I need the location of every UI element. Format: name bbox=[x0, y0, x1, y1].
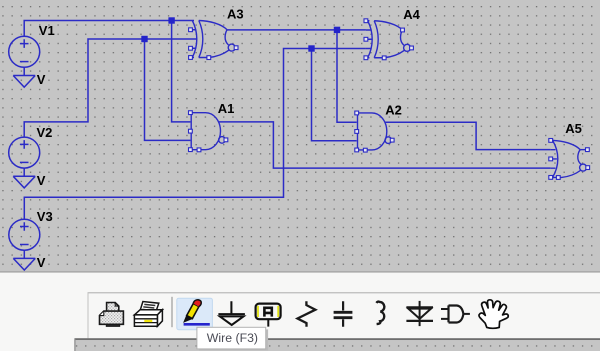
svg-text:V2: V2 bbox=[37, 125, 53, 140]
svg-text:A5: A5 bbox=[565, 121, 582, 136]
svg-text:A1: A1 bbox=[218, 101, 235, 116]
junction node J3 bbox=[308, 45, 314, 51]
svg-text:Wire (F3): Wire (F3) bbox=[207, 331, 258, 345]
wire V3 to node J3 and A4 pin4 bbox=[24, 49, 366, 220]
wire A2 output to A5 pin2 bbox=[385, 122, 551, 149]
junction node J1 bbox=[168, 17, 174, 23]
svg-text:A2: A2 bbox=[385, 103, 402, 118]
XOR gate A3 bbox=[189, 21, 238, 60]
wire J3 down to A2 pin4 bbox=[312, 49, 357, 141]
svg-text:V3: V3 bbox=[37, 209, 53, 224]
XOR gate A4 bbox=[364, 19, 413, 60]
TOOLBAR bbox=[88, 292, 600, 338]
toolbar resistor icon bbox=[298, 301, 316, 326]
toolbar net-label icon bbox=[256, 304, 281, 327]
svg-text:V: V bbox=[37, 173, 46, 188]
voltage source V1 bbox=[9, 36, 40, 67]
toolbar wire tool (pencil) selected bbox=[177, 298, 213, 330]
wire V1 to node J1 and A3 pin1 bbox=[24, 21, 190, 37]
toolbar inductor icon bbox=[376, 302, 384, 325]
toolbar print-preview icon bbox=[134, 302, 162, 327]
wire A1 output to A5 pin4 bbox=[218, 122, 551, 168]
AND gate A2 bbox=[355, 111, 394, 152]
white band below canvas bbox=[0, 273, 600, 351]
svg-text:V1: V1 bbox=[39, 23, 55, 38]
toolbar band left border bbox=[88, 292, 89, 338]
voltage source V2 bbox=[9, 137, 40, 168]
svg-text:V: V bbox=[37, 72, 46, 87]
AND gate A1 bbox=[189, 111, 228, 152]
toolbar band top border bbox=[88, 292, 600, 293]
wire A3 output to node J4 and A4 pin2 bbox=[227, 29, 366, 31]
junction node J2 bbox=[141, 36, 147, 42]
svg-text:A4: A4 bbox=[403, 7, 420, 22]
ground below V2 bbox=[13, 168, 35, 188]
wire J4 down to A2 pin2 bbox=[337, 30, 357, 122]
OR gate A5 bbox=[549, 139, 590, 180]
ground below V1 bbox=[13, 67, 35, 87]
tooltip Wire (F3) bbox=[197, 327, 268, 350]
toolbar print icon bbox=[100, 303, 124, 327]
wire J1 down to A1 pin2 bbox=[172, 21, 191, 122]
toolbar capacitor icon bbox=[334, 301, 353, 326]
svg-text:V: V bbox=[37, 255, 46, 270]
ground below V3 bbox=[13, 250, 35, 270]
toolbar separator bbox=[171, 297, 172, 327]
schematic canvas background bbox=[0, 0, 600, 272]
wire J2 down to A1 pin4 bbox=[145, 39, 191, 140]
toolbar diode icon bbox=[406, 301, 433, 326]
junction node J4 bbox=[334, 27, 340, 33]
bottom schematic sliver bbox=[74, 338, 600, 351]
toolbar pan hand icon bbox=[479, 300, 508, 329]
canvas bottom border bbox=[0, 271, 600, 272]
toolbar component icon bbox=[441, 305, 470, 322]
toolbar ground icon bbox=[218, 301, 245, 325]
svg-text:A3: A3 bbox=[227, 6, 244, 21]
voltage source V3 bbox=[9, 219, 40, 250]
wire V2 to node J2 and A3 pin3 bbox=[24, 39, 190, 137]
